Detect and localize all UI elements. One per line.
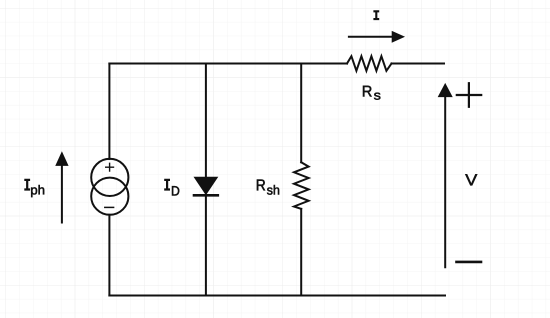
- wire left branch lower: [108, 215, 110, 296]
- wire Rsh branch lower: [300, 209, 302, 296]
- label Iph subscript ph: [31, 185, 44, 197]
- wire bottom rail: [109, 295, 445, 297]
- arrow Iph (photocurrent) shaft: [61, 166, 63, 223]
- label ID subscript D: [172, 186, 179, 195]
- arrow V head: [439, 84, 452, 97]
- arrow V (terminal voltage) shaft: [444, 97, 446, 267]
- label Rsh subscript sh: [267, 185, 279, 195]
- resistor Rs zigzag: [347, 56, 392, 71]
- resistor Rsh zigzag: [294, 162, 309, 209]
- label ID: serif I: [164, 180, 170, 190]
- label V terminal voltage: [465, 174, 477, 185]
- diode D1 cathode bar: [194, 194, 218, 197]
- label I (output current), serif-style I drawn as strokes: [373, 11, 379, 19]
- wire diode branch upper: [205, 64, 207, 179]
- terminal plus sign: [457, 83, 481, 107]
- terminal minus sign: [457, 261, 482, 264]
- arrow I (output current) shaft: [349, 36, 393, 38]
- current source Iph symbol (two overlapping circles): [91, 159, 128, 196]
- arrow Iph head: [56, 153, 68, 166]
- label Rs subscript s: [374, 93, 380, 100]
- label Rs letter R: [363, 86, 372, 97]
- current source minus sign: [105, 206, 114, 208]
- arrow I head: [392, 32, 404, 42]
- current source plus sign: [106, 163, 114, 171]
- wire top rail right segment: [392, 63, 445, 65]
- wire diode branch lower: [205, 196, 207, 296]
- label Rsh letter R: [257, 180, 265, 191]
- label Iph: serif I: [24, 180, 30, 190]
- wire left branch upper: [108, 64, 110, 160]
- diode D1 triangle: [195, 178, 217, 194]
- wire Rsh branch upper: [300, 64, 302, 163]
- wire top rail left segment: [109, 63, 347, 65]
